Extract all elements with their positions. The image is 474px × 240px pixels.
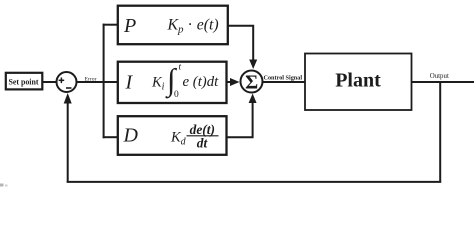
- wire plant output: [412, 81, 474, 83]
- artifact bottom-left smudge: [0, 184, 8, 187]
- wire feedback right vertical: [439, 82, 441, 182]
- svg-text:Control Signal: Control Signal: [264, 74, 303, 81]
- wire sigma to plant: [263, 81, 306, 83]
- wire branch vertical: [103, 24, 105, 139]
- svg-text:Set point: Set point: [8, 77, 38, 86]
- wire set point to summing junction: [43, 81, 58, 83]
- wire branch to D input: [103, 136, 118, 138]
- svg-text:dt: dt: [197, 136, 209, 151]
- svg-text:Plant: Plant: [335, 70, 381, 92]
- summing junction (comparator): [57, 72, 77, 92]
- svg-text:de(t): de(t): [190, 122, 215, 137]
- block I: [118, 62, 227, 103]
- block P: [118, 6, 228, 45]
- wire error (summing junction to branch): [77, 81, 118, 83]
- svg-text:Σ: Σ: [245, 72, 258, 94]
- svg-text:I: I: [125, 72, 134, 94]
- wire feedback left vertical with arrow: [67, 102, 69, 182]
- svg-text:t: t: [179, 63, 182, 73]
- summing junction sigma: [241, 71, 263, 94]
- svg-text:Kp · e(t): Kp · e(t): [167, 17, 219, 36]
- svg-text:0: 0: [174, 90, 179, 100]
- wire P output to sigma: [228, 26, 253, 60]
- wire branch to P input: [103, 24, 118, 26]
- block D: [118, 116, 227, 155]
- block Set point: [6, 73, 43, 90]
- wire feedback bottom horizontal: [67, 181, 442, 183]
- svg-text:Output: Output: [430, 73, 449, 80]
- svg-text:P: P: [123, 15, 136, 37]
- svg-text:D: D: [123, 125, 139, 147]
- wire I output to sigma: [227, 81, 232, 83]
- block Plant: [305, 54, 412, 111]
- wire D output to sigma: [227, 103, 253, 137]
- svg-text:e (t)dt: e (t)dt: [183, 74, 220, 90]
